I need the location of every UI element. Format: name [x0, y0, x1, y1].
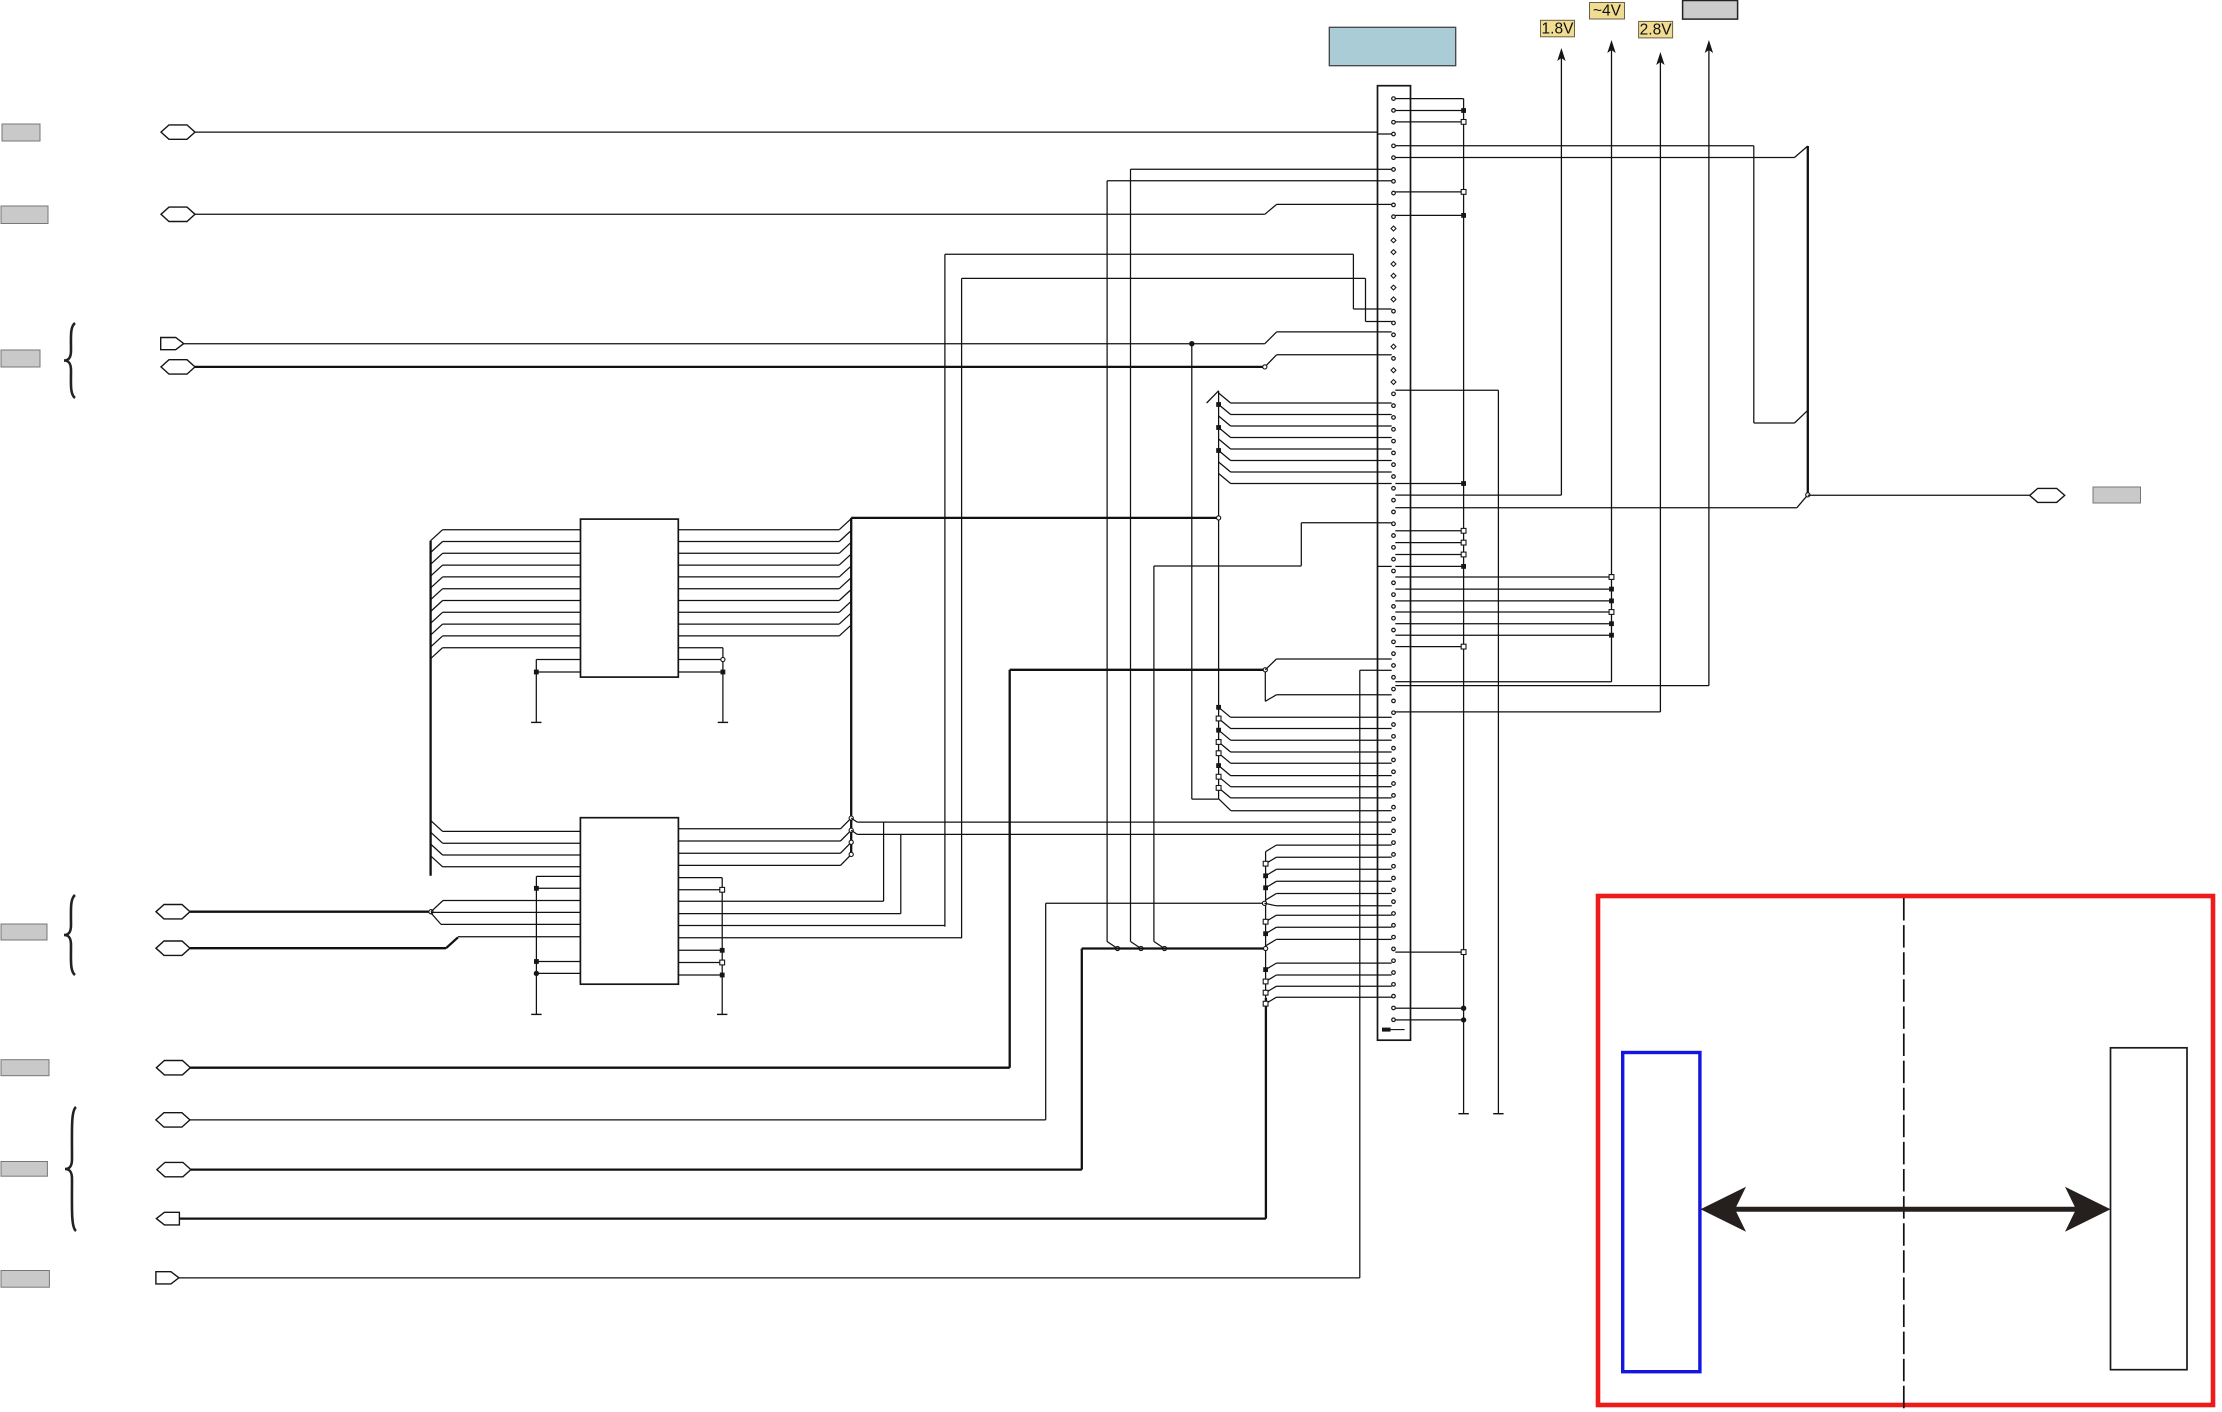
stub tick U2 right — [717, 1013, 727, 1015]
IC U1 right stub row659 — [678, 657, 725, 661]
wire 2.8V net — [1411, 711, 1661, 713]
bus B1 vertical — [1807, 146, 1809, 495]
jog rail vertical — [1265, 852, 1267, 998]
wire netB1 thick — [190, 668, 1267, 1068]
stub tick U2 left — [531, 1013, 541, 1015]
stub tick U1 left — [531, 721, 541, 723]
stub tick U1 right — [718, 721, 728, 723]
label 2.8V — [1639, 21, 1673, 38]
black module box — [2111, 1048, 2188, 1370]
port IN2 hexagon — [161, 207, 195, 221]
port B4 flag-left — [156, 1212, 179, 1225]
net label box 1 — [2, 124, 40, 141]
net label box 2 — [1, 206, 48, 224]
brace group A — [64, 323, 75, 398]
net U2 row937 to pin16row — [678, 937, 961, 939]
connector J1 pin circles — [1392, 97, 1396, 1022]
wire row1019 to rail — [1411, 1017, 1467, 1022]
svg-text:~4V: ~4V — [1593, 3, 1622, 20]
brace group B — [64, 895, 75, 975]
wire row623 to 4V rail — [1411, 621, 1614, 626]
power arrow 2.8V line — [1656, 52, 1664, 712]
bus U1-left vertical — [429, 541, 431, 876]
brace group C — [65, 1107, 76, 1231]
IC U2 right stub rows 877/889 — [678, 878, 724, 1015]
wire row522 route — [1154, 523, 1378, 951]
wire row612 to 4V rail — [1411, 610, 1614, 615]
bus feeder thick row948 — [1082, 946, 1268, 950]
net label box 7 — [1, 1271, 49, 1288]
net label box 3 — [1, 350, 40, 367]
net U2 row913 loop — [678, 830, 1377, 913]
wire pin row507 to bus bottom — [1411, 493, 1810, 508]
double-headed interface arrow — [1701, 1187, 2111, 1232]
connector J1 pin1 marker — [1382, 1028, 1405, 1032]
wire pin8 drop V1107 — [1107, 181, 1377, 951]
wire net3 — [184, 332, 1378, 347]
wire pin3 to rail — [1411, 120, 1467, 125]
wire pin2 to rail — [1411, 108, 1467, 113]
svg-text:2.8V: 2.8V — [1640, 22, 1673, 39]
IC U1 left stub row659 — [536, 660, 580, 723]
IC U1 right pin wires to bus — [678, 519, 851, 636]
wire row577 to 4V rail — [1411, 575, 1614, 580]
thick link IC1bus to B2 — [851, 516, 1220, 520]
IC U2 left rows from bus — [431, 820, 581, 866]
wire BUSA split2 — [431, 911, 580, 913]
wire ~4V net — [1411, 681, 1612, 683]
IC U1 left stub row672 — [534, 670, 581, 675]
wire netB1 jog to pin — [1265, 659, 1377, 670]
bus B2 lower fan wires — [1216, 705, 1377, 798]
blue module box — [1623, 1053, 1700, 1372]
wire net2 — [195, 204, 1378, 214]
IC U2 right rows to bus taps — [678, 816, 853, 865]
rail V1498 end tick — [1493, 1113, 1503, 1115]
wire VBAT net — [1411, 685, 1709, 687]
wire row589 to 4V rail — [1411, 587, 1614, 592]
wire net3 drop — [1192, 344, 1219, 799]
wire row566 to rail — [1411, 564, 1467, 569]
rail V1463 end tick — [1458, 1113, 1468, 1115]
IC U1 right stub row672 — [678, 670, 725, 675]
port OUT hexagon — [2030, 488, 2065, 502]
IC U1 right stub row647 — [678, 648, 723, 723]
wire pin6 to bus top — [1411, 146, 1808, 158]
blue callout box — [1329, 27, 1455, 65]
pentagon riser thick — [1265, 998, 1267, 1219]
bus B2 upper fan wires — [1216, 393, 1377, 484]
wire row530 to rail — [1411, 528, 1467, 533]
wire BUSB thick — [190, 947, 446, 949]
net label box 5 — [1, 1060, 49, 1076]
port BUSB hexagon — [156, 941, 190, 955]
wire row952 to rail — [1411, 950, 1467, 955]
wire row1008 to rail — [1411, 1006, 1467, 1011]
red frame box — [1598, 896, 2213, 1405]
wire 1.8V net — [1411, 494, 1562, 496]
wire pin7 drop V1130 — [1131, 169, 1378, 950]
label VBAT (grey) — [1683, 1, 1738, 20]
net label box 6 — [1, 1162, 47, 1177]
wire BUSA thick — [190, 910, 433, 914]
wire row600 to 4V rail — [1411, 599, 1614, 604]
bus U1-right vertical — [850, 518, 852, 855]
wire pin14 route — [945, 254, 1378, 926]
wire net4 bus — [195, 366, 1265, 368]
wire pin26 to rail2 — [1411, 389, 1499, 391]
wire row554 to rail — [1411, 552, 1467, 557]
power arrow ~4V line — [1607, 40, 1615, 682]
wire pin5 loop — [1411, 146, 1808, 423]
wire pin9 to rail — [1411, 190, 1467, 195]
jog rail fan wires — [1263, 845, 1377, 1006]
port IN3 flag — [161, 338, 184, 350]
label 1.8V — [1541, 20, 1575, 37]
wire BUSB split — [446, 937, 580, 949]
wire row810 from V1191 — [1219, 799, 1378, 811]
IC U2 left stub rows 961/973 — [534, 959, 581, 976]
wire netB3 thick — [191, 949, 1082, 1170]
net U2 row925 to pin14row — [678, 925, 945, 927]
connector J1 body — [1378, 86, 1411, 1040]
wire row542 to rail — [1411, 540, 1467, 545]
port BUSA hexagon — [156, 905, 190, 919]
wire netB4 thick — [180, 1217, 1266, 1219]
bus B2 vertical — [1207, 391, 1219, 799]
wire row635 to 4V rail — [1411, 633, 1614, 638]
connector J1 unconnected pin diamonds — [1391, 226, 1396, 384]
port B5 flag — [156, 1272, 179, 1284]
IC U2 right stub rows 950/962/975 — [678, 948, 724, 977]
IC U1 body — [581, 519, 679, 677]
IC U2 left stub rows 876/888 — [534, 876, 580, 1014]
wire net1 — [195, 131, 1378, 133]
port IN1 hexagon — [161, 125, 195, 139]
wire BUSA split3 — [431, 913, 580, 924]
jog rail upper segment — [1265, 670, 1377, 702]
power arrow 1.8V line — [1557, 48, 1565, 495]
port B1 hexagon — [156, 1061, 190, 1075]
junction rail V1463 — [1463, 99, 1465, 1114]
wire pin16 route — [962, 278, 1378, 938]
label ~4V — [1590, 3, 1625, 20]
wire pin1 to rail — [1411, 98, 1464, 100]
port IN4 hexagon — [161, 360, 195, 374]
power arrow VBAT line — [1705, 40, 1713, 686]
wire net4 breakout — [1263, 355, 1378, 369]
svg-text:1.8V: 1.8V — [1542, 21, 1575, 38]
wire row483 to rail — [1411, 481, 1467, 486]
wire netB2 — [190, 901, 1378, 1120]
connector J1 pin wire stubs — [1378, 99, 1411, 1020]
port B3 hexagon — [157, 1162, 191, 1176]
wire bus exit to OUT port — [1808, 494, 2030, 496]
wire row646 to rail — [1411, 644, 1467, 649]
wire netB5 — [179, 670, 1378, 1278]
IC U2 body — [580, 818, 678, 985]
net U2 row901 loop — [678, 818, 1377, 901]
port B2 hexagon — [156, 1113, 190, 1127]
junction rail V1498 — [1497, 390, 1499, 1113]
net label box OUT — [2093, 487, 2141, 503]
wire BUSA split1 — [431, 901, 580, 912]
net label box 4 — [1, 924, 47, 940]
wire pin11 to rail — [1411, 213, 1467, 218]
IC U1 left pin wires to bus — [431, 530, 581, 659]
dashed divider line — [1903, 898, 1905, 1410]
